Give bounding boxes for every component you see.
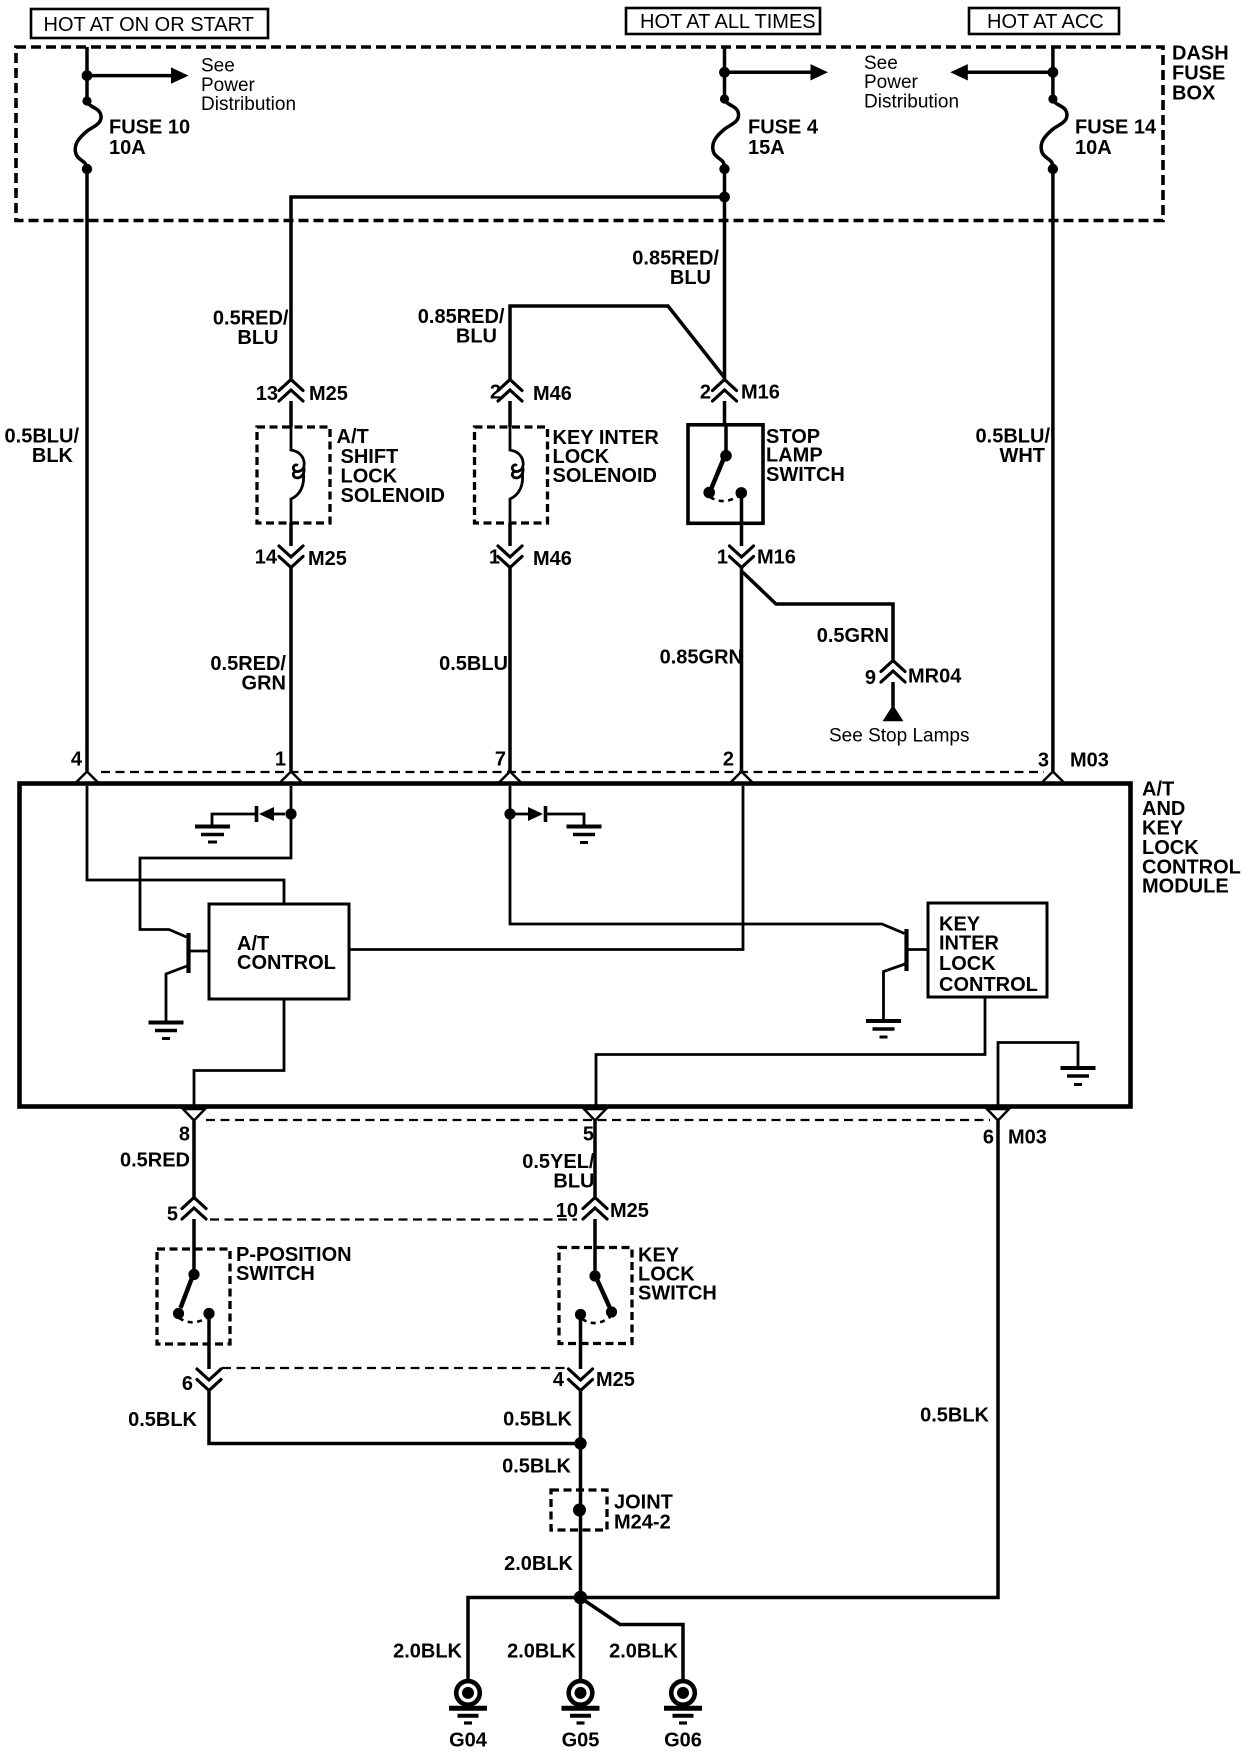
node: pin 1 / diode junction	[285, 808, 296, 819]
node: junction dot right feed / arrow	[1048, 67, 1059, 78]
wire: 0.5BLK from P-position switch to junction	[209, 1391, 581, 1444]
svg-text:0.5BLK: 0.5BLK	[503, 1409, 572, 1431]
wire: junction to G06	[583, 1600, 683, 1682]
connector 2 M46 (chevrons)	[498, 380, 522, 402]
label A/T AND KEY LOCK CONTROL MODULE	[1142, 778, 1241, 897]
svg-text:5: 5	[167, 1204, 178, 1226]
label 0.5YEL/BLU	[522, 1151, 595, 1192]
node: junction dot center feed / arrow	[719, 67, 730, 78]
label 0.5BLU/BLK	[5, 426, 80, 467]
svg-text:0.5RED: 0.5RED	[120, 1150, 190, 1172]
svg-text:1: 1	[275, 749, 286, 771]
wire: key interlock control output to pin 5	[596, 997, 985, 1105]
connector 14 M25 (chevrons)	[279, 546, 303, 568]
svg-text:A/T: A/T	[1142, 778, 1174, 800]
joint connector M24-2 (dashed case)	[551, 1490, 607, 1530]
clamp diode D2 (to ground)	[510, 806, 584, 825]
svg-text:2.0BLK: 2.0BLK	[393, 1640, 462, 1662]
svg-text:M25: M25	[596, 1369, 635, 1391]
svg-text:WHT: WHT	[999, 445, 1045, 467]
svg-text:2.0BLK: 2.0BLK	[504, 1553, 573, 1575]
svg-text:Distribution: Distribution	[201, 94, 296, 115]
svg-text:2.0BLK: 2.0BLK	[507, 1640, 576, 1662]
wire: solenoid SOL2 to connector 1 M46	[508, 523, 512, 546]
block A/T CONTROL	[209, 904, 349, 999]
wire: MR04 to stop lamps off-page arrow	[891, 682, 895, 709]
switch SW1 contact dots	[720, 450, 732, 462]
svg-text:SWITCH: SWITCH	[766, 464, 845, 486]
pin 7 entry triangle	[499, 772, 521, 783]
connector 1 M16 (chevrons)	[730, 546, 754, 568]
svg-text:2: 2	[490, 381, 501, 403]
connector 1 M46 (chevrons)	[498, 546, 522, 568]
svg-text:Power: Power	[864, 72, 919, 93]
transistor Q2 (key interlock driver)	[884, 929, 929, 1020]
svg-text:8: 8	[179, 1124, 190, 1146]
connector 5 (chevrons)	[182, 1198, 206, 1220]
svg-text:M46: M46	[533, 383, 572, 405]
svg-text:3: 3	[1038, 750, 1049, 772]
node: fuse 14 top dot	[1048, 94, 1057, 103]
wire: junction to module pin 6 column (0.5BLK)	[581, 1121, 999, 1598]
wire: branch to MR04 / stop lamps	[743, 572, 894, 661]
svg-text:SOLENOID: SOLENOID	[341, 485, 445, 507]
pin 1 entry triangle	[280, 772, 302, 783]
wire: A/T control output to pin 2	[349, 786, 743, 950]
clamp diode D1 (to ground)	[212, 806, 285, 825]
node: fuse 10 bottom dot	[82, 164, 92, 174]
svg-text:10: 10	[556, 1200, 578, 1222]
switch SW2 lever	[181, 1279, 192, 1308]
connector 2 M16 (chevrons)	[713, 380, 737, 402]
svg-text:4: 4	[553, 1369, 565, 1391]
header box HOT AT ON OR START	[31, 9, 268, 38]
wire: A/T control output to pin 8	[194, 999, 284, 1105]
svg-text:0.5BLK: 0.5BLK	[502, 1456, 571, 1478]
wire: P-position switch output	[207, 1314, 211, 1370]
wire: key interlock solenoid feed branch	[510, 306, 724, 380]
wire: pin 1 node to transistor Q1 collector	[140, 814, 291, 937]
wire: pin 7 to clamp diode node	[509, 786, 512, 814]
fuse F10 element (squiggle)	[75, 101, 101, 169]
pin 6 exit triangle	[987, 1109, 1009, 1121]
key interlock solenoid SOL2 (dashed case)	[475, 427, 548, 523]
svg-text:MR04: MR04	[908, 666, 962, 688]
svg-text:BLU: BLU	[237, 327, 278, 349]
svg-text:G05: G05	[562, 1730, 600, 1752]
svg-text:0.5BLK: 0.5BLK	[128, 1409, 197, 1431]
svg-text:BLK: BLK	[32, 445, 74, 467]
wire: branch from fuse 4 to A/T shift lock solenoid column	[291, 197, 725, 380]
label FUSE 14 10A	[1075, 117, 1157, 159]
svg-text:SWITCH: SWITCH	[236, 1263, 315, 1285]
solenoid SOL2 coil	[510, 427, 523, 523]
label 0.85RED/BLU (key interlock solenoid feed)	[418, 306, 505, 347]
node: ground distribution junction	[574, 1591, 588, 1605]
pin 3 entry triangle	[1042, 772, 1064, 783]
wire: 0.5BLU to module pin 7	[508, 568, 512, 772]
wire: 0.5BLK from key lock switch to junction	[579, 1391, 583, 1444]
connector boundary (dashed, P-position to key lock)	[210, 1218, 577, 1220]
label 0.5RED/BLU (A/T solenoid feed)	[213, 308, 289, 349]
off-page arrow (see stop lamps)	[883, 705, 904, 721]
node: branch dot to A/T shift lock solenoid feed	[719, 192, 730, 203]
svg-text:LOCK: LOCK	[939, 953, 996, 975]
switch SW1 throw arc (dashed)	[710, 495, 740, 501]
svg-text:JOINT: JOINT	[614, 1492, 673, 1514]
svg-text:FUSE 4: FUSE 4	[748, 117, 819, 139]
svg-text:14: 14	[255, 547, 278, 569]
svg-text:FUSE 10: FUSE 10	[109, 117, 190, 139]
svg-text:Distribution: Distribution	[864, 92, 959, 113]
wire: arrow to See Power Distribution (center)	[725, 71, 813, 75]
svg-text:See: See	[201, 56, 235, 77]
svg-text:FUSE: FUSE	[1172, 63, 1225, 85]
connector 13 M25 (chevrons)	[279, 380, 303, 402]
block KEY INTER LOCK CONTROL	[928, 903, 1047, 997]
svg-text:DASH: DASH	[1172, 43, 1229, 65]
svg-text:See Stop Lamps: See Stop Lamps	[829, 725, 969, 746]
header box HOT AT ALL TIMES	[626, 8, 820, 34]
svg-text:HOT AT ALL TIMES: HOT AT ALL TIMES	[640, 11, 816, 33]
svg-text:1: 1	[489, 547, 500, 569]
wire: arrow to See Power Distribution (left)	[87, 74, 173, 78]
node: 0.5BLK junction	[574, 1437, 586, 1449]
label DASH FUSE BOX	[1172, 43, 1229, 105]
transistor Q1 (A/T control driver)	[166, 933, 209, 1021]
wire: stop lamp switch output	[740, 493, 744, 546]
wire: pin 1 to clamp diode node	[290, 786, 293, 814]
wire: 0.5RED/GRN to module pin 1	[289, 568, 293, 772]
svg-text:2: 2	[723, 749, 734, 771]
ground G04	[449, 1681, 488, 1752]
label KEY INTER LOCK SOLENOID	[553, 427, 660, 487]
ground (module internal, pin 6)	[1061, 1068, 1096, 1085]
svg-text:M25: M25	[308, 548, 347, 570]
header box HOT AT ACC	[969, 8, 1119, 34]
switch SW3 throw arc (dashed)	[582, 1317, 610, 1323]
connector boundary (dashed, lower)	[222, 1367, 566, 1369]
label STOP LAMP SWITCH	[766, 426, 845, 486]
pin 5 exit triangle	[584, 1109, 606, 1121]
svg-text:INTER: INTER	[939, 933, 1000, 955]
wire: M16 connector into stop lamp switch	[723, 401, 727, 426]
wire: right feed from HOT AT ACC	[1051, 47, 1055, 99]
switch SW3 lever	[598, 1281, 610, 1308]
svg-text:SOLENOID: SOLENOID	[553, 465, 657, 487]
wire: junction to G04	[468, 1598, 581, 1682]
wire: 0.85GRN to module pin 2	[740, 568, 744, 772]
connector 9 MR04 (chevrons)	[881, 661, 905, 683]
svg-text:M46: M46	[533, 548, 572, 570]
wire: M25 connector to A/T shift lock solenoid	[289, 401, 293, 427]
svg-text:6: 6	[182, 1373, 193, 1395]
label FUSE 10 10A	[109, 117, 190, 159]
svg-text:M24-2: M24-2	[614, 1512, 671, 1534]
svg-text:See: See	[864, 53, 898, 74]
wire: center feed from HOT AT ALL TIMES	[723, 47, 727, 99]
svg-text:MODULE: MODULE	[1142, 876, 1229, 898]
connector 4 M25 (chevrons)	[569, 1369, 593, 1391]
svg-text:HOT AT ACC: HOT AT ACC	[987, 11, 1104, 33]
wire: pin 4 to A/T control input	[87, 786, 284, 904]
svg-text:15A: 15A	[748, 137, 785, 159]
label FUSE 4 15A	[748, 117, 819, 159]
svg-text:Power: Power	[201, 75, 256, 96]
stop lamp switch SW1 (case)	[688, 425, 763, 524]
ground (transistor Q1 emitter)	[149, 1023, 184, 1039]
svg-text:2: 2	[700, 381, 711, 403]
svg-text:1: 1	[717, 547, 728, 569]
connector boundary M03 (dashed, module bottom)	[206, 1119, 990, 1121]
wire: pin 6 to internal ground	[998, 1043, 1078, 1105]
wire: key lock switch output	[579, 1315, 583, 1370]
pin 2 entry triangle	[731, 772, 753, 783]
pin 8 exit triangle	[183, 1109, 205, 1121]
svg-text:0.5GRN: 0.5GRN	[817, 625, 889, 647]
svg-text:HOT AT ON OR START: HOT AT ON OR START	[44, 14, 254, 36]
svg-text:LOCK: LOCK	[341, 465, 398, 487]
wire: connector 10 into key lock switch	[593, 1219, 597, 1276]
label A/T SHIFT LOCK SOLENOID	[337, 426, 445, 507]
solenoid SOL1 coil	[291, 427, 304, 523]
label KEY LOCK SWITCH	[638, 1245, 717, 1305]
svg-text:10A: 10A	[109, 137, 146, 159]
wire: center feed below fuse 4	[723, 169, 727, 380]
svg-text:BLU: BLU	[553, 1170, 594, 1192]
svg-text:M25: M25	[309, 383, 348, 405]
svg-text:M16: M16	[757, 547, 796, 569]
svg-text:G06: G06	[664, 1730, 702, 1752]
node: joint M24-2 dot	[573, 1504, 586, 1517]
svg-text:SWITCH: SWITCH	[638, 1283, 717, 1305]
ground G05	[562, 1681, 600, 1752]
switch SW3 contact dots	[589, 1270, 600, 1281]
switch SW1 lever	[712, 459, 724, 488]
label 0.5BLU/WHT	[976, 426, 1051, 467]
connector 10 M25 (chevrons)	[583, 1198, 607, 1220]
P-position switch SW2 (dashed case)	[157, 1249, 230, 1344]
svg-text:7: 7	[495, 749, 506, 771]
dash fuse box (dashed boundary)	[16, 47, 1163, 221]
label 0.85RED/BLU (stop lamp switch feed)	[632, 247, 719, 288]
wire: pin 7 node to transistor Q2 collector	[510, 814, 905, 934]
ground G06	[664, 1681, 702, 1752]
svg-text:6: 6	[983, 1127, 994, 1149]
fuse F4 element (squiggle)	[713, 99, 739, 169]
wire: pin 5 to key lock switch (0.5YEL/BLU)	[593, 1121, 597, 1198]
svg-text:0.85GRN: 0.85GRN	[660, 647, 743, 669]
wire: junction to joint connector M24-2	[579, 1444, 583, 1598]
svg-text:CONTROL: CONTROL	[939, 974, 1038, 996]
ground (diode D2)	[567, 827, 602, 843]
svg-text:4: 4	[71, 749, 83, 771]
wire: pin 8 to P-position switch (0.5RED)	[192, 1121, 196, 1198]
A/T shift lock solenoid SOL1 (dashed case)	[257, 427, 330, 523]
node: pin 7 / diode junction	[504, 808, 515, 819]
connector boundary M03 (dashed, module top)	[101, 771, 1044, 773]
text See Power Distribution (center)	[864, 53, 959, 113]
label JOINT M24-2	[614, 1492, 673, 1534]
svg-text:BOX: BOX	[1172, 83, 1216, 105]
svg-text:0.5BLU: 0.5BLU	[439, 653, 508, 675]
node: junction dot left feed / arrow	[82, 70, 93, 81]
svg-text:9: 9	[865, 667, 876, 689]
svg-text:A/T: A/T	[337, 426, 369, 448]
svg-text:13: 13	[256, 383, 278, 405]
ground (diode D1)	[195, 827, 230, 843]
key lock switch SW3 (dashed case)	[559, 1248, 632, 1344]
svg-text:M16: M16	[741, 381, 780, 403]
svg-text:BLU: BLU	[670, 267, 711, 289]
svg-text:BLU: BLU	[456, 325, 497, 347]
ground (transistor Q2 emitter)	[866, 1021, 901, 1037]
wire: stop lamp switch input to contact	[724, 426, 728, 453]
wire: right feed below fuse 14 down to module pin 3	[1051, 169, 1055, 771]
svg-text:FUSE 14: FUSE 14	[1075, 117, 1157, 139]
fuse F14 element (squiggle)	[1041, 99, 1067, 169]
module A/T and key lock control module (border)	[20, 784, 1131, 1107]
svg-text:CONTROL: CONTROL	[237, 952, 336, 974]
svg-text:5: 5	[583, 1124, 594, 1146]
svg-text:2.0BLK: 2.0BLK	[609, 1640, 678, 1662]
switch SW2 contact dots	[188, 1269, 199, 1280]
svg-text:0.5BLK: 0.5BLK	[920, 1405, 989, 1427]
node: fuse 4 top dot	[720, 94, 729, 103]
connector 6 (chevrons)	[197, 1369, 221, 1391]
node: fuse 10 top dot	[82, 96, 91, 105]
wire: solenoid SOL1 to connector 14 M25	[289, 523, 293, 546]
svg-text:M03: M03	[1070, 750, 1109, 772]
node: fuse 14 bottom dot	[1048, 164, 1058, 174]
text See Power Distribution (left)	[201, 56, 296, 116]
svg-text:10A: 10A	[1075, 137, 1112, 159]
wire: arrow (left-pointing) to See Power Distribution (right)	[966, 71, 1053, 75]
svg-text:M03: M03	[1008, 1127, 1047, 1149]
svg-text:GRN: GRN	[242, 672, 286, 694]
svg-text:M25: M25	[610, 1200, 649, 1222]
wire: left feed from HOT AT ON OR START	[85, 47, 89, 101]
switch SW2 throw arc (dashed)	[179, 1317, 208, 1322]
label P-POSITION SWITCH	[236, 1244, 352, 1285]
pin 4 entry triangle	[76, 772, 98, 783]
svg-text:G04: G04	[449, 1730, 488, 1752]
wire: junction to G05	[579, 1598, 583, 1682]
wire: connector 5 into P-position switch	[192, 1219, 196, 1274]
label 0.5RED/GRN	[210, 653, 286, 694]
wire: M46 connector to key interlock solenoid	[508, 401, 512, 427]
wire: left feed below fuse 10 down to module pin 4	[85, 169, 89, 771]
node: fuse 4 bottom dot	[719, 164, 729, 174]
